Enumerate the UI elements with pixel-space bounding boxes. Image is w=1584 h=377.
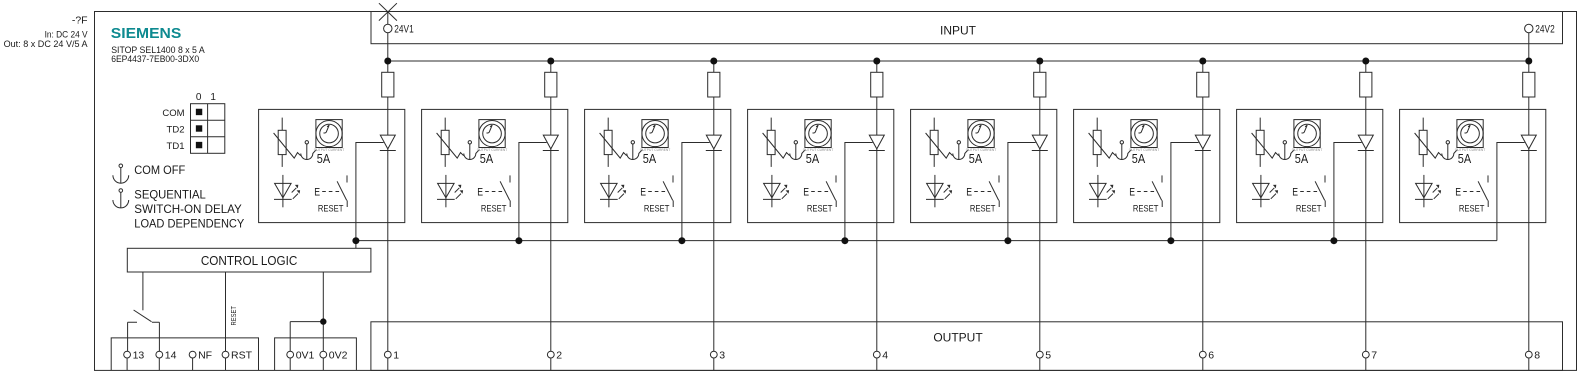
svg-text:2: 2	[556, 350, 562, 362]
svg-text:SEQUENTIAL: SEQUENTIAL	[134, 188, 206, 202]
svg-text:14: 14	[165, 350, 177, 362]
svg-text:OUTPUT: OUTPUT	[933, 331, 983, 345]
svg-text:Out: 8 x DC 24 V/5 A: Out: 8 x DC 24 V/5 A	[4, 39, 89, 50]
svg-text:13: 13	[133, 350, 145, 362]
svg-text:COM OFF: COM OFF	[134, 163, 185, 177]
svg-text:NF: NF	[198, 350, 212, 362]
svg-text:0V1: 0V1	[296, 350, 315, 362]
svg-text:SIEMENS: SIEMENS	[111, 25, 182, 42]
svg-text:5: 5	[1045, 350, 1051, 362]
svg-text:COM: COM	[162, 108, 184, 119]
svg-text:6EP4437-7EB00-3DX0: 6EP4437-7EB00-3DX0	[111, 54, 199, 64]
svg-text:-?F: -?F	[72, 15, 88, 27]
svg-text:6: 6	[1208, 350, 1214, 362]
svg-text:TD1: TD1	[167, 141, 185, 152]
svg-text:7: 7	[1371, 350, 1377, 362]
svg-text:CONTROL LOGIC: CONTROL LOGIC	[201, 254, 298, 268]
svg-text:SWITCH-ON DELAY: SWITCH-ON DELAY	[134, 202, 242, 216]
svg-text:INPUT: INPUT	[940, 23, 977, 37]
svg-text:0V2: 0V2	[329, 350, 348, 362]
svg-text:RESET: RESET	[231, 305, 238, 325]
svg-text:8: 8	[1534, 350, 1540, 362]
svg-text:3: 3	[719, 350, 725, 362]
svg-text:RST: RST	[231, 350, 253, 362]
svg-text:0: 0	[196, 92, 202, 103]
svg-text:1: 1	[210, 92, 216, 103]
svg-text:4: 4	[882, 350, 888, 362]
svg-text:24V1: 24V1	[394, 24, 413, 36]
svg-text:1: 1	[393, 350, 399, 362]
svg-text:TD2: TD2	[167, 125, 185, 136]
svg-text:24V2: 24V2	[1535, 24, 1554, 36]
svg-text:LOAD DEPENDENCY: LOAD DEPENDENCY	[134, 217, 244, 231]
